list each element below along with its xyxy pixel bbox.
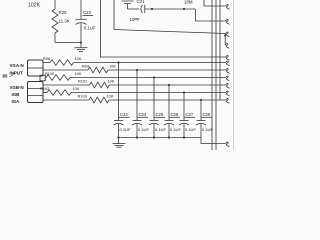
ground (bottom)	[118, 138, 120, 144]
svg-text:10K: 10K	[109, 63, 116, 68]
resistor R103	[89, 97, 109, 103]
svg-text:R98: R98	[43, 56, 50, 61]
svg-text:C27: C27	[186, 112, 194, 117]
svg-text:0.1UF: 0.1UF	[120, 127, 131, 132]
svg-text:C26: C26	[171, 112, 179, 117]
node dot row2	[136, 69, 138, 71]
svg-text:C25: C25	[156, 112, 164, 117]
node dot row5	[183, 91, 185, 93]
off-page hook	[225, 44, 229, 49]
resistor R25	[52, 9, 58, 33]
wire row2 to hook	[108, 69, 226, 71]
off-page hook	[226, 69, 230, 74]
off-page hook	[226, 99, 230, 104]
svg-text:C23: C23	[120, 112, 128, 117]
svg-text:IGB: IGB	[12, 92, 20, 97]
off-page hook	[226, 84, 230, 89]
svg-text:10M: 10M	[184, 0, 193, 4]
wire bottom of R25/C22	[55, 42, 81, 44]
off-page hook	[226, 56, 230, 61]
wire row2	[43, 69, 88, 71]
svg-text:R100: R100	[45, 71, 55, 76]
wire row6 to hook	[109, 99, 226, 101]
wire row5	[43, 92, 47, 94]
wire row3 to hook	[70, 77, 226, 79]
off-page hook	[226, 142, 230, 147]
ferrite pin row3	[40, 75, 45, 81]
svg-text:10PF: 10PF	[130, 17, 141, 22]
node dot row6	[200, 99, 202, 101]
svg-text:R101: R101	[78, 78, 87, 83]
capacitor C24	[132, 70, 149, 139]
node junction dot	[80, 41, 82, 43]
svg-text:R25: R25	[59, 10, 68, 15]
bus vertical 1	[211, 0, 213, 150]
svg-text:C22: C22	[83, 10, 92, 15]
svg-text:C28: C28	[203, 112, 211, 117]
resistor R99	[88, 67, 108, 73]
off-page hook	[226, 61, 230, 66]
node dot	[183, 8, 185, 10]
svg-text:0.1UF: 0.1UF	[202, 127, 213, 132]
svg-text:85: 85	[3, 74, 8, 79]
svg-text:10K: 10K	[107, 93, 114, 98]
svg-text:11.3K: 11.3K	[59, 19, 70, 24]
wire row4 to hook	[110, 84, 226, 86]
svg-text:0.1UF: 0.1UF	[185, 127, 196, 132]
connector J2	[28, 82, 44, 103]
ground bus wire	[119, 137, 202, 139]
capacitor C25	[149, 78, 166, 139]
svg-text:0.1UF: 0.1UF	[170, 127, 181, 132]
node dot row3	[153, 76, 155, 78]
capacitor C27	[179, 93, 196, 139]
svg-text:0.1UF: 0.1UF	[84, 26, 96, 31]
wire corner to hook	[196, 9, 226, 21]
wire ground to C21	[128, 8, 140, 10]
capacitor C21	[141, 5, 143, 13]
svg-text:VGB-N: VGB-N	[10, 85, 24, 90]
node dot	[151, 8, 153, 10]
svg-text:10K: 10K	[73, 86, 80, 91]
off-page hook	[226, 5, 230, 10]
svg-text:0.1UF: 0.1UF	[138, 127, 149, 132]
node dot row4	[168, 84, 170, 86]
off-page hook	[226, 32, 230, 37]
resistor R98	[50, 60, 74, 66]
wire top feed to R25	[54, 0, 56, 9]
svg-text:102K: 102K	[28, 3, 41, 9]
wire bus to hook	[201, 138, 226, 144]
capacitor C26	[164, 85, 181, 139]
svg-text:IGA: IGA	[12, 99, 21, 104]
svg-text:10K: 10K	[75, 56, 82, 61]
ground (top, cut)	[122, 1, 134, 4]
svg-text:VGA-N: VGA-N	[10, 63, 24, 68]
shield box inner	[114, 0, 226, 34]
wire from top to hook	[204, 0, 226, 6]
wire R25 bottom	[54, 33, 56, 43]
connector J1	[28, 60, 44, 76]
capacitor C22	[80, 0, 82, 19]
ground	[80, 43, 82, 48]
bus vertical 3	[219, 0, 221, 100]
wire row1 to hook	[74, 62, 226, 64]
resistor R100	[46, 75, 70, 81]
wire row6	[43, 99, 89, 101]
svg-text:INPUT: INPUT	[10, 71, 23, 76]
bus vertical 2	[215, 0, 217, 150]
svg-text:R103: R103	[78, 93, 87, 98]
svg-text:0.1UF: 0.1UF	[155, 127, 166, 132]
wire tie	[224, 34, 226, 46]
wire C21 to corner	[145, 8, 196, 10]
resistor R102	[47, 90, 71, 96]
off-page hook	[226, 76, 230, 81]
off-page hook	[226, 20, 230, 25]
node dot row1	[117, 61, 119, 63]
svg-text:R102: R102	[40, 86, 49, 91]
svg-text:C21: C21	[137, 0, 146, 4]
node dot	[224, 34, 226, 36]
wire row4	[43, 84, 90, 86]
wire row3	[44, 77, 47, 79]
wire row1	[43, 62, 50, 64]
off-page hook	[226, 91, 230, 96]
resistor R101	[90, 82, 110, 88]
page edge line	[233, 0, 235, 150]
capacitor C23	[114, 63, 131, 138]
wire row5 to hook	[71, 92, 226, 94]
svg-text:C24: C24	[139, 112, 147, 117]
shield box outer	[101, 0, 226, 57]
svg-text:10K: 10K	[75, 71, 82, 76]
capacitor C28	[196, 100, 213, 138]
svg-text:R99: R99	[82, 63, 89, 68]
svg-text:10K: 10K	[108, 78, 115, 83]
